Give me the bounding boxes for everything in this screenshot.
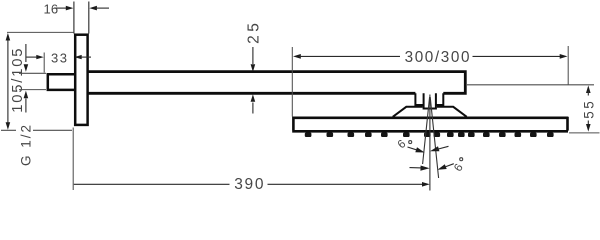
svg-text:300/300: 300/300 — [405, 49, 472, 66]
tilt line right 6deg — [430, 97, 438, 178]
dim 33 — [27, 55, 92, 59]
dim 16 — [54, 6, 109, 11]
svg-text:16: 16 — [44, 2, 59, 17]
supply pipe stub G1/2 — [48, 74, 75, 90]
dim 33 extension line — [43, 53, 45, 73]
leader arrow to stub bottom — [24, 91, 29, 113]
nozzle tabs — [305, 133, 554, 138]
angle 6deg lower arrows — [410, 164, 454, 171]
svg-text:55: 55 — [581, 99, 596, 119]
dim 105/105 top extension line — [7, 31, 74, 33]
dim 300/300 extension lines — [291, 47, 293, 117]
pivot nut — [424, 93, 436, 108]
dim 300/300 — [293, 54, 568, 59]
dim 16 extension lines — [73, 2, 75, 34]
shower head plate — [292, 117, 568, 132]
svg-text:25: 25 — [246, 20, 263, 44]
dim 55 extension lines — [467, 84, 594, 86]
pivot block — [415, 93, 443, 105]
dim 105/105 bottom extension line — [1, 129, 72, 131]
dim 25 — [251, 47, 256, 114]
cone joint — [393, 107, 467, 117]
stub edge extension lines — [19, 72, 46, 74]
dim 105/105 — [6, 33, 11, 130]
angle 6deg upper arrows — [408, 146, 449, 152]
tilt line left 6deg — [423, 97, 430, 164]
centerline — [429, 95, 431, 191]
svg-text:390: 390 — [234, 176, 265, 193]
dim 390 — [74, 182, 430, 187]
svg-text:33: 33 — [51, 51, 68, 66]
svg-text:G 1/2: G 1/2 — [19, 123, 34, 166]
wall plate escutcheon — [75, 35, 87, 125]
leader arrow to stub top — [24, 44, 29, 72]
svg-text:105/105: 105/105 — [10, 47, 26, 113]
dim 390 extension line — [72, 128, 74, 191]
shower arm — [88, 72, 465, 94]
dim 55 — [586, 85, 591, 131]
